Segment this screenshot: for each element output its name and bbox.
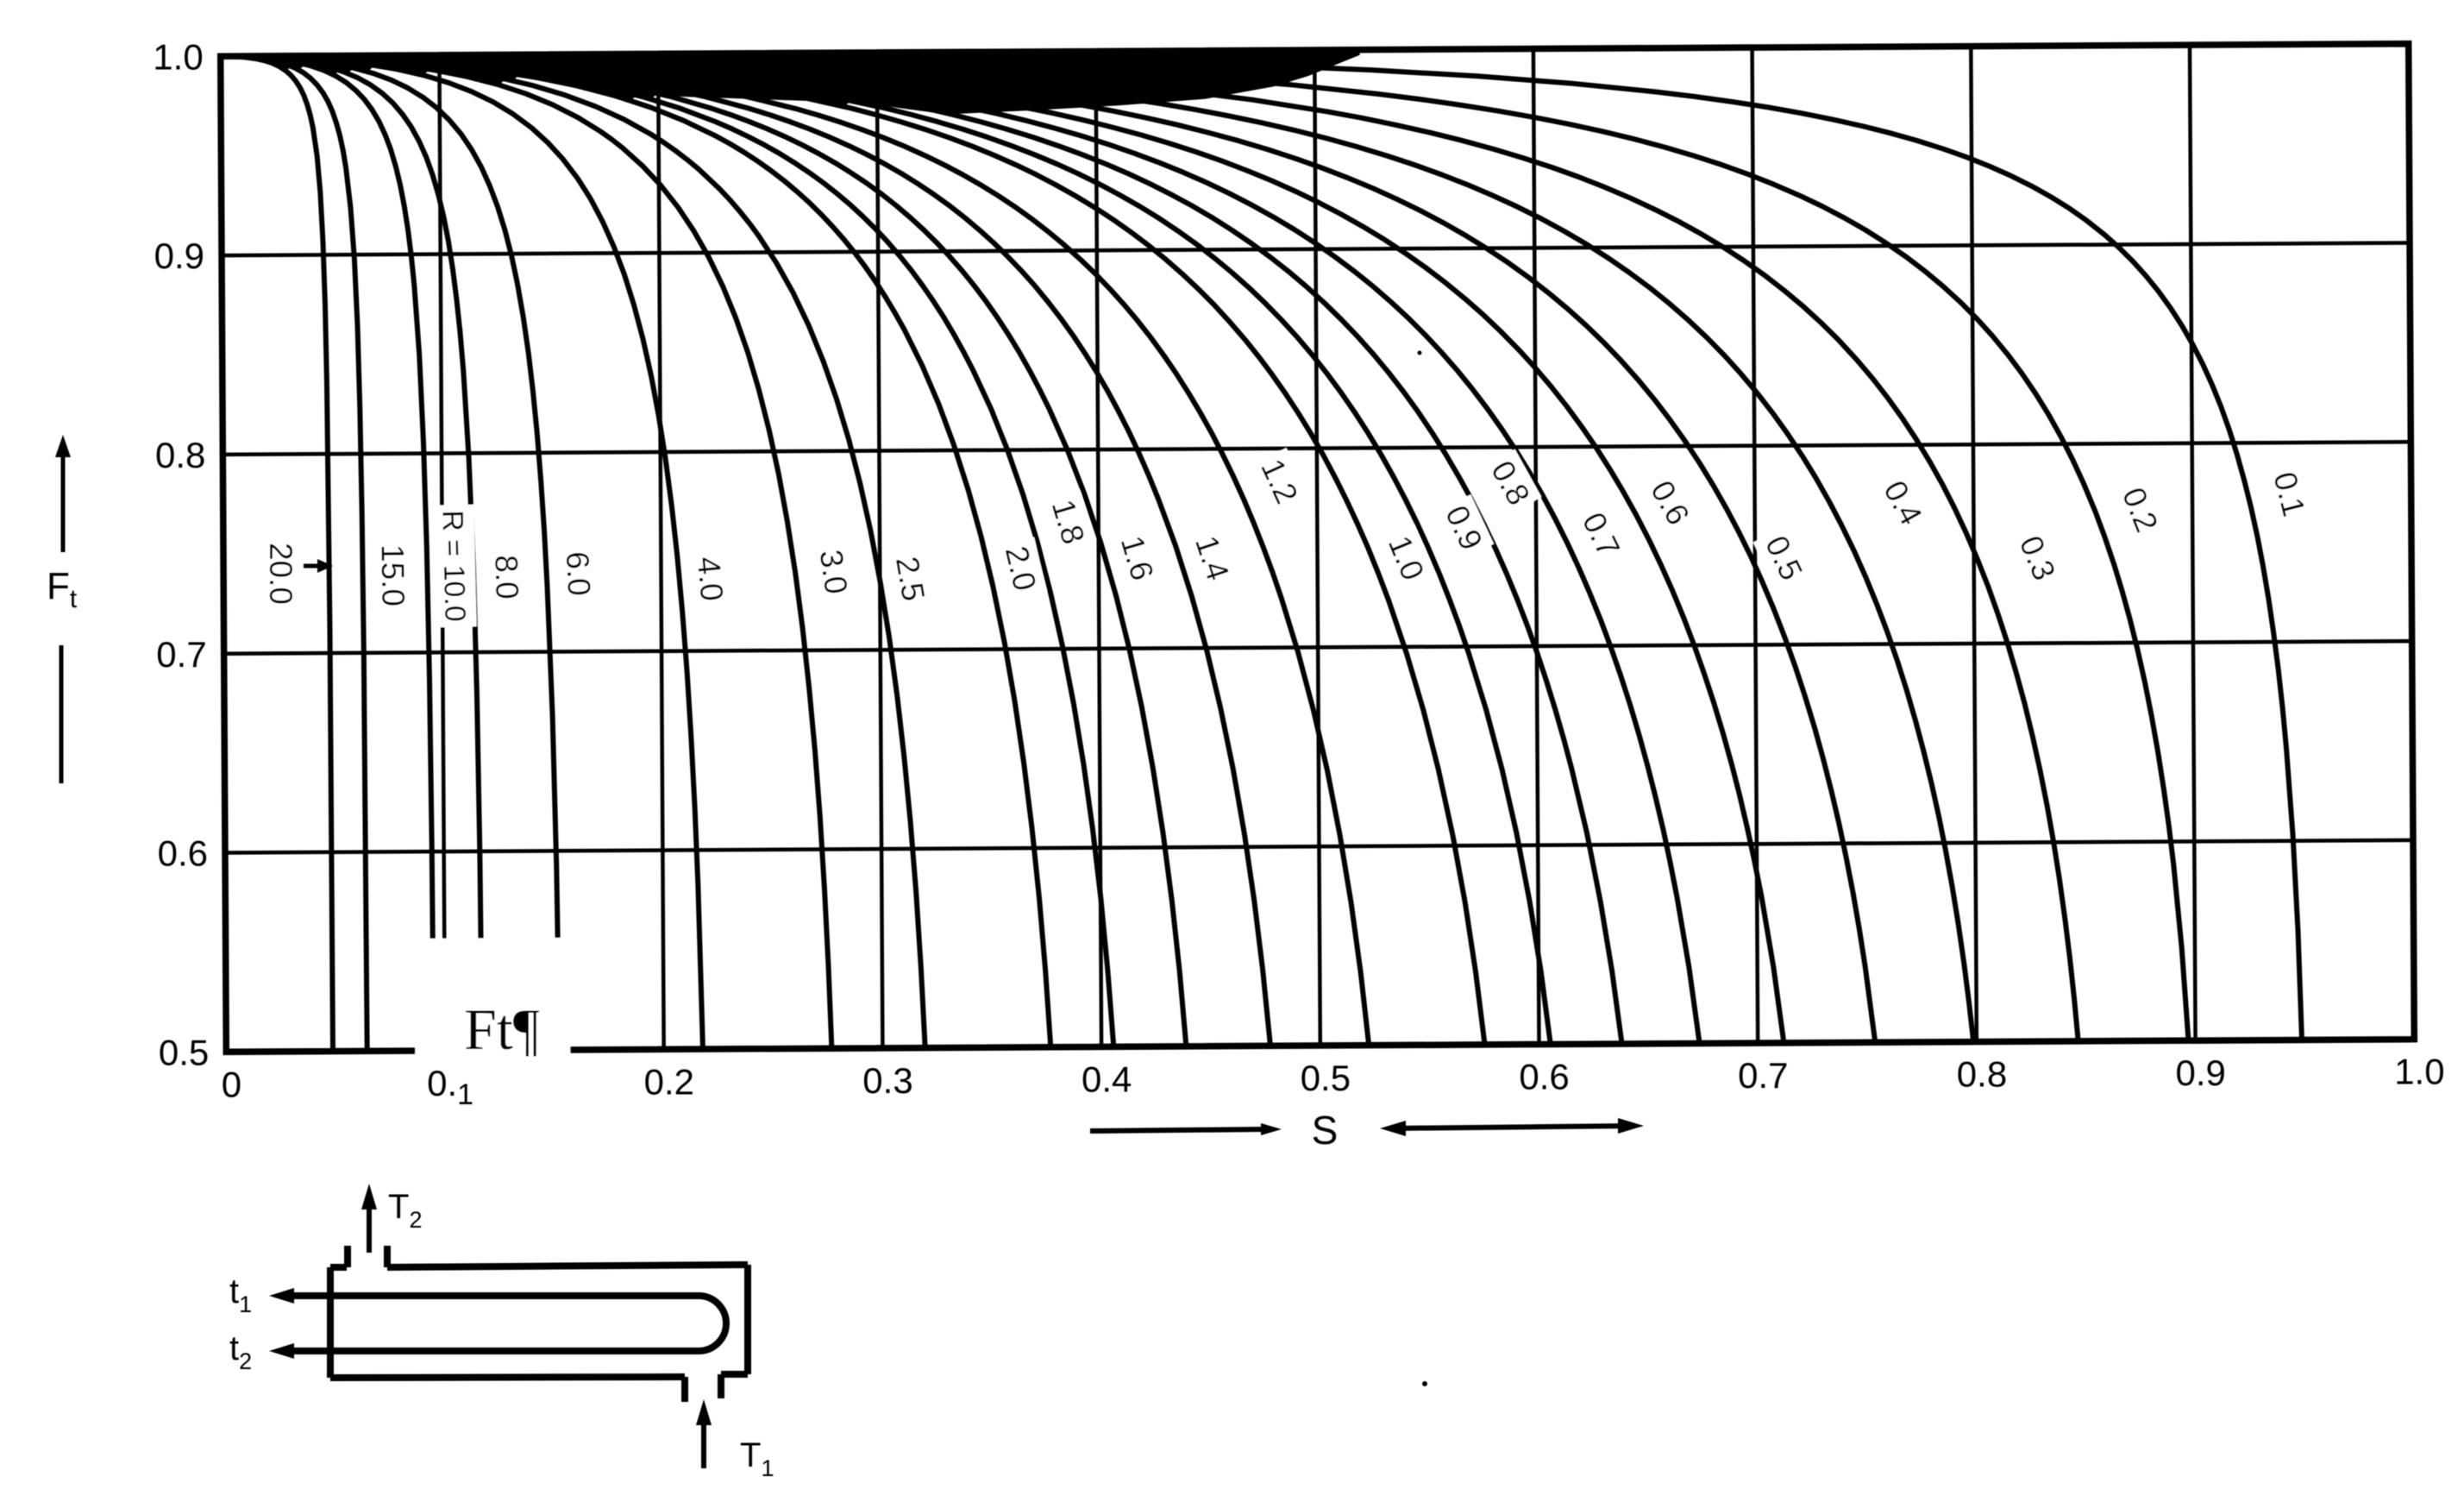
gridline S=0.6	[1533, 49, 1539, 1045]
curve R=0.1	[221, 55, 2302, 1040]
gridline S=0.9	[2190, 45, 2196, 1040]
merged curve band near Ft=1	[269, 49, 1118, 109]
speck	[1418, 351, 1422, 355]
gridline S=0.8	[1971, 47, 1977, 1042]
curve label 1.8	[1040, 490, 1095, 554]
curve label 6.0	[555, 545, 599, 602]
curve label 1.4	[1183, 525, 1239, 590]
svg-text:0.5: 0.5	[159, 1032, 209, 1072]
curve R=0.8	[221, 56, 1622, 1044]
curve R=2	[221, 56, 1051, 1047]
svg-text:0.7: 0.7	[1738, 1055, 1788, 1096]
Ft axis line	[60, 645, 64, 783]
T2 arrow	[367, 1204, 372, 1253]
curve R=1	[221, 56, 1485, 1045]
curve R=6	[221, 56, 560, 1050]
S axis right line	[1390, 1126, 1633, 1128]
curve label R = 10.0	[432, 505, 476, 628]
curve R=20	[221, 56, 333, 1051]
curve label 0.1	[2262, 462, 2316, 525]
svg-text:R = 10.0: R = 10.0	[436, 510, 471, 622]
curve R=0.9	[221, 56, 1551, 1044]
curve R=1.2	[221, 56, 1370, 1045]
svg-text:4.0: 4.0	[691, 555, 730, 602]
S axis left line	[1090, 1129, 1268, 1131]
shell bottom edge	[721, 1371, 748, 1378]
curve label 0.2	[2110, 477, 2169, 543]
curve label 2.0	[994, 537, 1046, 600]
T1 arrow	[701, 1422, 706, 1468]
shell top edge	[330, 1264, 347, 1271]
tube upper	[293, 1292, 699, 1299]
svg-text:Ft¶: Ft¶	[464, 996, 540, 1062]
curve label 2.5	[885, 549, 935, 610]
svg-text:8.0: 8.0	[488, 555, 525, 600]
svg-text:0.4: 0.4	[1082, 1059, 1132, 1100]
curve R=0.4	[221, 56, 1974, 1042]
curve label 0.8	[1479, 449, 1542, 518]
gridline Ft=0.6	[225, 840, 2413, 853]
svg-text:0.6: 0.6	[1519, 1057, 1569, 1097]
curve R=1.4	[221, 56, 1270, 1046]
Ft axis arrow	[61, 450, 66, 552]
curve R=1.8	[221, 56, 1114, 1046]
curve label 1.2	[1249, 448, 1309, 515]
curve R=15	[221, 56, 367, 1051]
curve label 15.0	[371, 539, 413, 613]
svg-text:2.5: 2.5	[889, 554, 931, 604]
white patch bottom-left	[415, 938, 571, 1065]
svg-text:0.8: 0.8	[155, 435, 205, 475]
curve R=10	[221, 56, 434, 1051]
svg-text:6.0: 6.0	[560, 550, 598, 596]
curve R=8	[221, 56, 482, 1050]
scan blob near top	[515, 47, 1360, 114]
curve label 8.0	[485, 550, 528, 606]
curve R=0.7	[221, 56, 1700, 1043]
curve label 0.5	[1753, 525, 1815, 592]
curve label 0.4	[1872, 469, 1934, 537]
svg-text:0.6: 0.6	[158, 833, 208, 874]
tube lower	[293, 1348, 699, 1354]
shell left edge	[327, 1267, 334, 1378]
svg-text:0.2: 0.2	[644, 1061, 694, 1102]
svg-text:3.0: 3.0	[813, 548, 855, 597]
svg-text:0: 0	[222, 1064, 241, 1104]
curve label 0.3	[2008, 525, 2067, 592]
curve label 1.6	[1109, 526, 1164, 590]
T2 nozzle	[344, 1246, 351, 1267]
svg-text:0.5: 0.5	[1301, 1058, 1351, 1098]
curve R=2.5	[221, 56, 925, 1047]
gridline S=0.2	[658, 53, 664, 1049]
gridline S=0.4	[1096, 52, 1102, 1047]
svg-text:0.9: 0.9	[154, 236, 204, 276]
curve R=4	[221, 56, 703, 1049]
curve label 3.0	[809, 542, 857, 602]
gridline S=0.5	[1314, 50, 1320, 1046]
U-bend	[699, 1296, 726, 1351]
speck	[1422, 1381, 1427, 1386]
curve R=0.3	[221, 56, 2078, 1041]
svg-text:0.8: 0.8	[1957, 1054, 2007, 1095]
curve R=3	[221, 56, 832, 1048]
gridline S=0.3	[877, 53, 883, 1048]
svg-text:0.7: 0.7	[156, 634, 206, 675]
shell right edge	[744, 1265, 751, 1374]
gridline Ft=0.9	[222, 243, 2410, 256]
t2 arrow	[269, 1343, 294, 1359]
curve label 1.0	[1376, 525, 1435, 592]
curve label 0.7	[1570, 501, 1631, 569]
curve R=0.6	[221, 56, 1784, 1043]
t1 arrow	[269, 1288, 294, 1304]
plot frame	[221, 44, 2415, 1052]
svg-text:15.0: 15.0	[374, 544, 411, 607]
gridline Ft=0.8	[223, 442, 2411, 455]
svg-text:0.3: 0.3	[862, 1060, 912, 1101]
arrow marker at 20.0	[304, 564, 326, 569]
gridline Ft=0.7	[224, 641, 2412, 654]
svg-text:1.0: 1.0	[2394, 1052, 2444, 1092]
curve label 20.0	[260, 537, 301, 610]
svg-text:20.0: 20.0	[263, 543, 298, 605]
curve R=0.2	[221, 56, 2189, 1041]
gridline S=0.1	[439, 55, 445, 1051]
curve label 0.6	[1639, 469, 1702, 537]
curve label 4.0	[687, 550, 733, 608]
curve R=1.6	[221, 56, 1187, 1046]
svg-text:S: S	[1312, 1108, 1339, 1153]
curve R=0.5	[221, 56, 1876, 1042]
T1 nozzle	[681, 1377, 688, 1402]
curve label 0.9	[1433, 494, 1494, 562]
svg-text:1.0: 1.0	[153, 36, 203, 77]
gridline S=0.7	[1752, 47, 1759, 1043]
svg-text:0.9: 0.9	[2176, 1052, 2226, 1093]
